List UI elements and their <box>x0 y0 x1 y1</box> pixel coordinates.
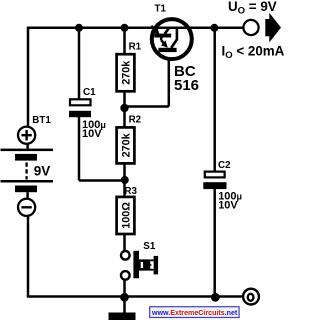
svg-text:10V: 10V <box>218 200 238 212</box>
svg-text:9V: 9V <box>34 164 51 179</box>
svg-text:270k: 270k <box>120 132 132 157</box>
svg-text:270k: 270k <box>120 60 132 85</box>
svg-text:C2: C2 <box>218 160 231 171</box>
svg-text:10V: 10V <box>82 128 102 140</box>
svg-text:S1: S1 <box>143 241 156 252</box>
svg-text:R2: R2 <box>129 115 142 126</box>
svg-text:BT1: BT1 <box>32 115 51 126</box>
svg-text:516: 516 <box>174 77 199 94</box>
svg-text:R3: R3 <box>124 186 137 197</box>
svg-text:www.ExtremeCircuits.net: www.ExtremeCircuits.net <box>151 309 238 317</box>
svg-text:100Ω: 100Ω <box>120 202 132 229</box>
svg-text:C1: C1 <box>83 87 96 98</box>
svg-text:T1: T1 <box>155 4 167 15</box>
svg-text:R1: R1 <box>129 41 142 52</box>
